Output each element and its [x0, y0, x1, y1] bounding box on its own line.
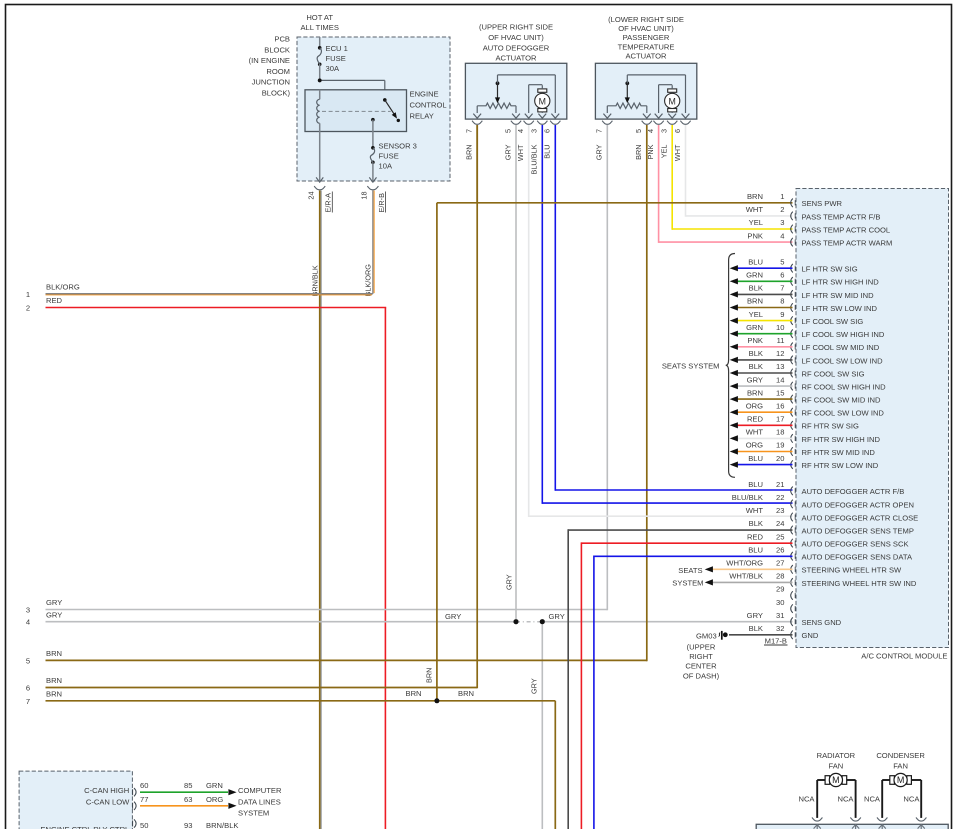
svg-text:FUSE: FUSE [326, 54, 346, 63]
pin 11 LF COOL SW MID IND [791, 343, 793, 352]
engine ctrl rly ctrl pin arc [134, 819, 136, 827]
svg-text:77: 77 [140, 795, 148, 804]
svg-text:RELAY: RELAY [410, 111, 434, 120]
svg-text:BRN: BRN [747, 388, 763, 397]
svg-text:RF HTR SW HIGH IND: RF HTR SW HIGH IND [802, 435, 881, 444]
svg-text:E/R-A: E/R-A [324, 193, 333, 213]
svg-text:LF HTR SW LOW IND: LF HTR SW LOW IND [802, 304, 878, 313]
svg-text:CONTROL: CONTROL [410, 101, 447, 110]
wire pin 10 GRN stub to seats system [737, 333, 793, 335]
svg-text:LF COOL SW MID IND: LF COOL SW MID IND [802, 343, 880, 352]
pin 27 STEERING WHEEL HTR SW [791, 565, 793, 574]
svg-text:BLU: BLU [748, 257, 763, 266]
connector E/R-A cup [314, 186, 325, 190]
wire 1 BLK/ORG to E/R-B [46, 293, 373, 295]
svg-text:GRY: GRY [549, 612, 565, 621]
svg-text:PASS TEMP ACTR F/B: PASS TEMP ACTR F/B [802, 212, 881, 221]
svg-text:HOT AT: HOT AT [306, 13, 333, 22]
svg-text:BRN: BRN [406, 689, 422, 698]
svg-text:1: 1 [780, 192, 784, 201]
svg-text:SYSTEM: SYSTEM [238, 809, 269, 818]
c-can low pin arc [134, 802, 136, 810]
svg-text:ACTUATOR: ACTUATOR [495, 54, 537, 63]
svg-text:4: 4 [516, 129, 525, 133]
svg-text:BLK/ORG: BLK/ORG [46, 282, 80, 291]
svg-text:CENTER: CENTER [685, 662, 717, 671]
wire pin 16 ORG stub to seats system [737, 411, 793, 413]
relay coil [319, 90, 321, 100]
svg-text:RF HTR SW LOW IND: RF HTR SW LOW IND [802, 461, 879, 470]
svg-text:OF HVAC UNIT): OF HVAC UNIT) [618, 24, 674, 33]
pin 17 RF HTR SW SIG [791, 421, 793, 430]
svg-text:GRY: GRY [503, 144, 512, 160]
svg-text:COMPUTER: COMPUTER [238, 786, 282, 795]
node GRY splice B [540, 619, 545, 624]
svg-text:29: 29 [776, 585, 784, 594]
svg-text:BRN: BRN [46, 689, 62, 698]
svg-text:BLK: BLK [749, 624, 763, 633]
svg-text:9: 9 [780, 310, 784, 319]
svg-text:SENS PWR: SENS PWR [802, 199, 843, 208]
auto defogger actuator box [465, 63, 566, 119]
wire pin 11 PNK stub to seats system [737, 346, 793, 348]
passenger temperature actuator box [595, 63, 696, 119]
svg-text:GRY: GRY [46, 610, 62, 619]
svg-text:STEERING WHEEL HTR SW IND: STEERING WHEEL HTR SW IND [802, 579, 917, 588]
svg-text:PNK: PNK [747, 336, 763, 345]
svg-text:24: 24 [306, 191, 315, 199]
relay dashed link [322, 110, 391, 112]
svg-text:BLU: BLU [748, 454, 763, 463]
svg-text:BRN: BRN [747, 297, 763, 306]
motor M [538, 89, 547, 92]
node BRN junction line7 [435, 699, 439, 703]
svg-text:GRN: GRN [206, 781, 223, 790]
svg-text:SENSOR 3: SENSOR 3 [379, 141, 417, 150]
svg-text:LF HTR SW SIG: LF HTR SW SIG [802, 265, 858, 274]
svg-text:GRN: GRN [746, 323, 763, 332]
svg-text:GRN: GRN [746, 271, 763, 280]
svg-text:1: 1 [26, 290, 30, 299]
svg-text:PCB: PCB [274, 35, 290, 44]
svg-text:BRN: BRN [747, 192, 763, 201]
wire actuator1 pin7 BRN down [476, 125, 478, 202]
svg-text:25: 25 [776, 532, 784, 541]
svg-text:BLU: BLU [543, 145, 552, 159]
svg-text:BRN: BRN [458, 689, 474, 698]
pin 31 SENS GND [791, 617, 793, 626]
svg-text:AUTO DEFOGGER ACTR F/B: AUTO DEFOGGER ACTR F/B [802, 487, 905, 496]
wire 3 GRY to passenger actuator pin 7 [46, 609, 608, 611]
potentiometer track [476, 106, 478, 113]
wire pin 9 YEL stub to seats system [737, 320, 793, 322]
svg-text:32: 32 [776, 624, 784, 633]
wire actuator1 pin5 GRY down [515, 125, 517, 622]
fan lead wires [816, 780, 818, 818]
svg-text:16: 16 [776, 401, 784, 410]
pin 12 LF COOL SW LOW IND [791, 356, 793, 365]
svg-text:ALL TIMES: ALL TIMES [300, 23, 338, 32]
svg-text:BRN/BLK: BRN/BLK [310, 265, 319, 296]
wire actuator1 pin4 WHT down to pin23 [528, 125, 530, 517]
svg-text:AUTO DEFOGGER ACTR CLOSE: AUTO DEFOGGER ACTR CLOSE [802, 513, 919, 522]
wire sensor fuse down [372, 162, 374, 181]
svg-text:M: M [897, 775, 905, 785]
svg-text:OF DASH): OF DASH) [683, 671, 720, 680]
svg-text:BRN: BRN [634, 145, 643, 160]
svg-text:BRN: BRN [46, 676, 62, 685]
svg-text:ENGINE: ENGINE [410, 90, 439, 99]
svg-text:PNK: PNK [646, 144, 655, 159]
svg-text:24: 24 [776, 519, 784, 528]
svg-text:60: 60 [140, 781, 148, 790]
svg-text:AUTO DEFOGGER SENS SCK: AUTO DEFOGGER SENS SCK [802, 540, 909, 549]
svg-text:7: 7 [465, 129, 474, 133]
pin 8 LF HTR SW LOW IND [791, 303, 793, 312]
svg-text:CONDENSER: CONDENSER [876, 751, 925, 760]
svg-text:PNK: PNK [747, 231, 763, 240]
svg-text:23: 23 [776, 506, 784, 515]
svg-text:JUNCTION: JUNCTION [252, 78, 290, 87]
svg-text:ORG: ORG [206, 795, 223, 804]
svg-text:BLK: BLK [749, 362, 763, 371]
svg-text:PASSENGER: PASSENGER [623, 33, 670, 42]
pin 22 AUTO DEFOGGER ACTR OPEN [791, 500, 793, 509]
svg-text:OF HVAC UNIT): OF HVAC UNIT) [488, 33, 544, 42]
svg-text:12: 12 [776, 349, 784, 358]
svg-text:BLOCK: BLOCK [264, 45, 290, 54]
svg-text:28: 28 [776, 572, 784, 581]
svg-text:AUTO DEFOGGER SENS DATA: AUTO DEFOGGER SENS DATA [802, 553, 913, 562]
svg-text:(LOWER RIGHT SIDE: (LOWER RIGHT SIDE [608, 15, 684, 24]
wire pin1 BRN SENS PWR [437, 202, 793, 204]
wire hot feed into fuse [319, 37, 321, 48]
pin 5 LF HTR SW SIG [791, 264, 793, 273]
connector E/R-B cup [367, 186, 378, 190]
svg-text:ORG: ORG [746, 441, 763, 450]
svg-text:BLU/BLK: BLU/BLK [530, 144, 539, 174]
svg-text:PASS TEMP ACTR WARM: PASS TEMP ACTR WARM [802, 239, 893, 248]
pin 7 LF HTR SW MID IND [791, 290, 793, 299]
svg-text:21: 21 [776, 480, 784, 489]
fan lead wires [881, 780, 883, 818]
svg-text:15: 15 [776, 388, 784, 397]
wire BLK/ORG from E/R-B down [372, 191, 374, 294]
pin 2 PASS TEMP ACTR F/B [791, 212, 793, 221]
svg-text:RF COOL SW LOW IND: RF COOL SW LOW IND [802, 409, 885, 418]
wire pin 20 BLU stub to seats system [737, 464, 793, 466]
svg-text:RIGHT: RIGHT [689, 652, 713, 661]
wire pin26 BLU to bottom [594, 555, 793, 557]
pin 19 RF HTR SW MID IND [791, 447, 793, 456]
svg-text:17: 17 [776, 415, 784, 424]
svg-text:19: 19 [776, 441, 784, 450]
node GRY splice A overlay [514, 619, 519, 624]
engine control module box [19, 771, 132, 829]
motor wires to pins 4 and 3 [541, 85, 543, 89]
wire pin 18 WHT stub to seats system [737, 437, 793, 439]
svg-text:RED: RED [46, 296, 63, 305]
svg-text:TEMPERATURE: TEMPERATURE [618, 42, 675, 51]
wire pin 8 BRN stub to seats system [737, 307, 793, 309]
svg-text:BRN: BRN [46, 649, 62, 658]
svg-text:WHT/BLK: WHT/BLK [729, 572, 763, 581]
wire relay output down [372, 120, 374, 148]
wire pin 14 GRY stub to seats system [737, 385, 793, 387]
svg-text:WHT/ORG: WHT/ORG [726, 559, 763, 568]
svg-text:WHT: WHT [746, 428, 764, 437]
svg-text:YEL: YEL [749, 310, 763, 319]
potentiometer wiper arrow [496, 81, 500, 85]
node GRY splice B overlay [540, 619, 545, 624]
arrow coil wire exit [316, 177, 323, 182]
fan motor [882, 779, 890, 781]
svg-text:GRY: GRY [504, 574, 513, 590]
svg-text:AUTO DEFOGGER: AUTO DEFOGGER [483, 43, 550, 52]
wire GRY splice to pin31 [542, 621, 792, 623]
fan control box bottom [756, 824, 948, 829]
wire 2 RED to vertical [46, 307, 387, 309]
svg-text:RF COOL SW HIGH IND: RF COOL SW HIGH IND [802, 383, 887, 392]
svg-text:M17-B: M17-B [765, 636, 787, 645]
wire pin 12 BLK stub to seats system [737, 359, 793, 361]
svg-text:BLK: BLK [749, 349, 763, 358]
wiper feedback wire to pin 6 [626, 75, 628, 83]
svg-text:LF HTR SW HIGH IND: LF HTR SW HIGH IND [802, 278, 880, 287]
svg-text:SEATS: SEATS [678, 566, 702, 575]
svg-text:BRN/BLK: BRN/BLK [206, 821, 239, 829]
svg-text:LF COOL SW SIG: LF COOL SW SIG [802, 317, 864, 326]
wire GRY down from splice B [541, 622, 543, 829]
svg-text:AUTO DEFOGGER ACTR OPEN: AUTO DEFOGGER ACTR OPEN [802, 500, 915, 509]
svg-text:E/R-B: E/R-B [377, 193, 386, 213]
relay switch arm [385, 100, 394, 114]
pin 9 LF COOL SW SIG [791, 316, 793, 325]
svg-text:C-CAN LOW: C-CAN LOW [86, 797, 130, 806]
wire pin27 WHT/ORG to seats system [713, 568, 793, 570]
svg-text:BLK: BLK [749, 519, 763, 528]
svg-text:FAN: FAN [893, 761, 908, 770]
wire actuator2 pin6 WHT down to pin2 [685, 125, 687, 217]
wire pin24 BLK to bottom [568, 529, 792, 531]
svg-text:5: 5 [26, 656, 30, 665]
seats system brace [726, 254, 735, 478]
svg-text:WHT: WHT [746, 506, 764, 515]
svg-text:5: 5 [634, 129, 643, 133]
svg-text:BLK: BLK [749, 284, 763, 293]
svg-text:M: M [832, 775, 840, 785]
svg-text:ENGINE CTRL RLY CTRL: ENGINE CTRL RLY CTRL [40, 825, 129, 829]
svg-text:8: 8 [780, 297, 784, 306]
svg-text:20: 20 [776, 454, 784, 463]
svg-text:SEATS SYSTEM: SEATS SYSTEM [662, 361, 720, 370]
pin 32 GND [791, 631, 793, 640]
svg-text:4: 4 [646, 129, 655, 133]
potentiometer track [606, 106, 608, 113]
wire pin25 RED to bottom [581, 542, 792, 544]
svg-text:2: 2 [26, 304, 30, 313]
svg-text:27: 27 [776, 559, 784, 568]
svg-text:6: 6 [780, 271, 784, 280]
potentiometer wiper arrow [625, 81, 629, 85]
svg-text:FAN: FAN [829, 761, 844, 770]
svg-text:63: 63 [184, 795, 192, 804]
svg-text:SYSTEM: SYSTEM [672, 579, 703, 588]
wire fuse to relay junction [319, 64, 321, 80]
wire branch to relay switch [320, 79, 385, 81]
pin exit arrows [603, 114, 611, 119]
wire pin32 BLK to ground [729, 634, 793, 636]
pin connector cups [472, 121, 482, 125]
svg-text:ROOM: ROOM [266, 67, 290, 76]
motor M [668, 89, 677, 92]
pin 28 STEERING WHEEL HTR SW IND [791, 578, 793, 587]
relay switch common node [383, 98, 387, 102]
wiper feedback wire to pin 6 [497, 75, 499, 83]
svg-text:BLU: BLU [748, 480, 763, 489]
wire RED vertical down [384, 308, 386, 829]
svg-text:LF HTR SW MID IND: LF HTR SW MID IND [802, 291, 875, 300]
svg-text:ECU 1: ECU 1 [326, 44, 348, 53]
svg-text:BLK/ORG: BLK/ORG [364, 264, 373, 297]
svg-text:18: 18 [776, 428, 784, 437]
svg-text:(UPPER RIGHT SIDE: (UPPER RIGHT SIDE [479, 23, 553, 32]
relay switch output node [371, 118, 375, 122]
fan motor [817, 779, 825, 781]
wire 6 BRN to defogger actuator pin 7 [46, 687, 478, 689]
svg-text:WHT: WHT [746, 205, 764, 214]
svg-text:11: 11 [777, 336, 785, 345]
svg-text:(UPPER: (UPPER [687, 642, 716, 651]
pin 16 RF COOL SW LOW IND [791, 408, 793, 417]
pin 6 LF HTR SW HIGH IND [791, 277, 793, 286]
pin 23 AUTO DEFOGGER ACTR CLOSE [791, 513, 793, 522]
svg-text:14: 14 [776, 375, 784, 384]
svg-text:RED: RED [747, 415, 764, 424]
svg-text:M: M [539, 96, 546, 106]
svg-text:6: 6 [26, 684, 30, 693]
svg-text:FUSE: FUSE [379, 152, 399, 161]
fuse SENSOR 3 10A [371, 146, 375, 150]
wire pin 19 ORG stub to seats system [737, 451, 793, 453]
svg-text:4: 4 [780, 231, 784, 240]
pin 20 RF HTR SW LOW IND [791, 460, 793, 469]
svg-text:BRN: BRN [425, 668, 434, 683]
svg-text:ORG: ORG [746, 401, 763, 410]
svg-text:2: 2 [780, 205, 784, 214]
pin 10 LF COOL SW HIGH IND [791, 329, 793, 338]
svg-text:RF HTR SW MID IND: RF HTR SW MID IND [802, 448, 876, 457]
svg-text:6: 6 [673, 129, 682, 133]
svg-text:M: M [669, 96, 676, 106]
svg-text:GND: GND [802, 631, 819, 640]
svg-text:RED: RED [747, 532, 764, 541]
A/C control module box [796, 189, 949, 648]
pin 26 AUTO DEFOGGER SENS DATA [791, 552, 793, 561]
wire 4 GRY to splice [46, 621, 517, 623]
svg-text:7: 7 [595, 129, 604, 133]
svg-text:26: 26 [776, 545, 784, 554]
wire actuator2 pin3 YEL down to pin3 [671, 125, 673, 230]
svg-text:31: 31 [776, 611, 784, 620]
svg-text:C-CAN HIGH: C-CAN HIGH [84, 786, 129, 795]
wire actuator1 pin3 BLU/BLK down to pin22 [541, 125, 543, 504]
pin 1 SENS PWR [791, 199, 793, 208]
wire 7 BRN junction to vertical drop [437, 700, 555, 702]
svg-text:YEL: YEL [749, 218, 763, 227]
svg-text:RF COOL SW MID IND: RF COOL SW MID IND [802, 396, 882, 405]
pin 13 RF COOL SW SIG [791, 369, 793, 378]
wire 7 BRN to junction [46, 700, 437, 702]
svg-text:18: 18 [360, 191, 369, 199]
svg-text:BRN: BRN [465, 145, 474, 160]
svg-text:STEERING WHEEL HTR SW: STEERING WHEEL HTR SW [802, 566, 903, 575]
pin 25 AUTO DEFOGGER SENS SCK [791, 539, 793, 548]
svg-text:10A: 10A [379, 162, 393, 171]
pin 29 unused [791, 591, 793, 600]
svg-text:YEL: YEL [660, 145, 669, 159]
wire 5 BRN to passenger actuator pin 5 [46, 659, 647, 661]
svg-text:WHT: WHT [673, 144, 682, 161]
pin connector cups [602, 121, 612, 125]
pin 14 RF COOL SW HIGH IND [791, 382, 793, 391]
svg-text:7: 7 [26, 697, 30, 706]
pin 3 PASS TEMP ACTR COOL [791, 225, 793, 234]
svg-text:3: 3 [530, 129, 539, 133]
wire pin 6 GRN stub to seats system [737, 280, 793, 282]
wire C-CAN HIGH GRN [140, 791, 228, 793]
pin exit arrows [473, 114, 481, 119]
svg-text:3: 3 [780, 218, 784, 227]
arrow sensor fuse exit [369, 177, 376, 182]
svg-text:5: 5 [780, 257, 784, 266]
node relay feed junction [318, 79, 322, 83]
svg-text:GRY: GRY [46, 598, 62, 607]
svg-text:10: 10 [776, 323, 784, 332]
svg-text:LF COOL SW LOW IND: LF COOL SW LOW IND [802, 356, 884, 365]
svg-text:PASS TEMP ACTR COOL: PASS TEMP ACTR COOL [802, 225, 891, 234]
svg-text:4: 4 [26, 618, 30, 627]
svg-text:BLU/BLK: BLU/BLK [732, 493, 763, 502]
pin 21 AUTO DEFOGGER ACTR F/B [791, 487, 793, 496]
svg-text:85: 85 [184, 781, 192, 790]
fuse ECU 1 30A [318, 46, 322, 50]
svg-text:SENS GND: SENS GND [802, 618, 842, 627]
svg-text:AUTO DEFOGGER SENS TEMP: AUTO DEFOGGER SENS TEMP [802, 526, 914, 535]
svg-text:RF HTR SW SIG: RF HTR SW SIG [802, 422, 859, 431]
svg-text:NCA: NCA [798, 795, 815, 804]
svg-text:LF COOL SW HIGH IND: LF COOL SW HIGH IND [802, 330, 885, 339]
svg-text:GRY: GRY [530, 678, 539, 694]
svg-text:6: 6 [543, 129, 552, 133]
svg-text:A/C CONTROL MODULE: A/C CONTROL MODULE [861, 652, 947, 661]
svg-text:GRY: GRY [445, 612, 461, 621]
svg-text:GRY: GRY [747, 375, 763, 384]
svg-text:RADIATOR: RADIATOR [817, 751, 856, 760]
svg-text:GM03: GM03 [696, 631, 717, 640]
svg-text:NCA: NCA [864, 795, 881, 804]
svg-text:50: 50 [140, 821, 148, 829]
svg-text:DATA LINES: DATA LINES [238, 797, 281, 806]
svg-text:NCA: NCA [903, 795, 920, 804]
svg-text:5: 5 [503, 129, 512, 133]
wire pin 5 BLU stub to seats system [737, 267, 793, 269]
wire pin 7 BLK stub to seats system [737, 293, 793, 295]
pin 4 PASS TEMP ACTR WARM [791, 238, 793, 247]
svg-text:BLOCK): BLOCK) [262, 89, 291, 98]
node relay feed junction overlay [318, 79, 322, 83]
svg-text:3: 3 [26, 606, 30, 615]
